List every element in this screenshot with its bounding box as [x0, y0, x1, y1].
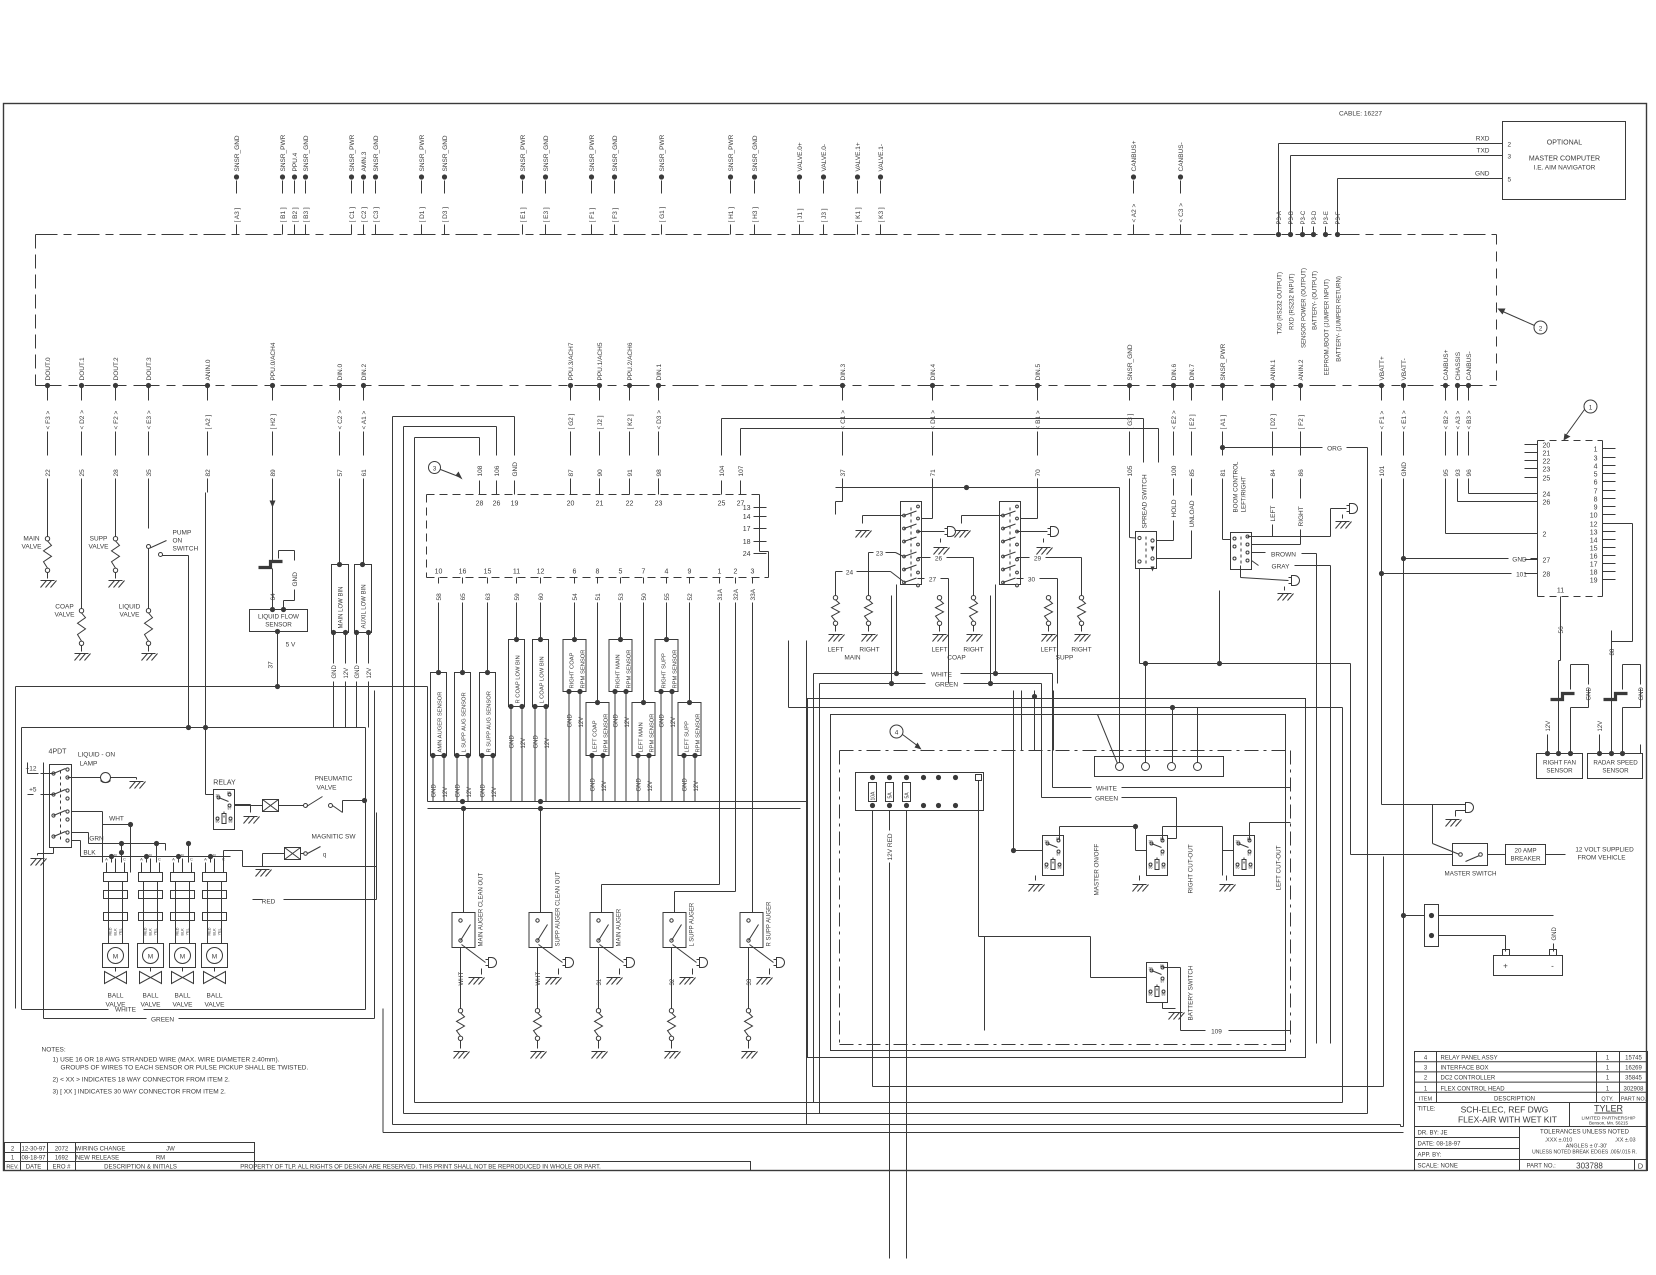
- svg-text:30: 30: [1028, 577, 1036, 584]
- svg-text:DIN.6: DIN.6: [1171, 364, 1178, 381]
- svg-text:LEFT: LEFT: [1041, 647, 1057, 654]
- wire 96 to pin24: [1469, 493, 1538, 494]
- svg-text:1) USE 16 OR 18 AWG STRANDED W: 1) USE 16 OR 18 AWG STRANDED WIRE (MAX. …: [53, 1057, 280, 1064]
- svg-text:4: 4: [895, 730, 899, 737]
- svg-text:M: M: [212, 954, 217, 961]
- svg-text:VALVE: VALVE: [317, 785, 338, 792]
- wire GND: [1338, 171, 1503, 227]
- svg-text:87: 87: [228, 807, 232, 811]
- svg-text:LIQUID - ON: LIQUID - ON: [78, 752, 116, 759]
- harness stub B1 / DIN.5 wire 70: [1035, 364, 1042, 493]
- battery BT1: [1494, 950, 1563, 976]
- svg-text:RPM SENSOR: RPM SENSOR: [604, 714, 610, 753]
- svg-text:[ D1 ]: [ D1 ]: [419, 207, 426, 223]
- svg-text:YEL: YEL: [186, 928, 190, 935]
- svg-text:90: 90: [597, 469, 604, 477]
- wire 71 to module: [932, 493, 934, 519]
- wire 104 route: [722, 419, 1144, 463]
- bus wire: lower harness dash line: [36, 385, 1497, 387]
- svg-text:JW: JW: [166, 1147, 175, 1153]
- bell B1: [918, 527, 956, 555]
- svg-text:5 V: 5 V: [286, 642, 296, 649]
- svg-text:DOUT.3: DOUT.3: [146, 357, 153, 381]
- svg-text:MAIN AUGER CLEAN OUT: MAIN AUGER CLEAN OUT: [479, 872, 485, 946]
- pin 4 wire 55: [664, 569, 671, 613]
- svg-text:SUPP: SUPP: [90, 536, 108, 543]
- svg-text:30: 30: [1149, 840, 1153, 844]
- svg-text:MAIN: MAIN: [23, 536, 40, 543]
- pin 22: [626, 481, 634, 508]
- wire white run: [428, 801, 807, 803]
- node P3-E: [1323, 211, 1331, 375]
- harness stub H2 / PPU.0/ACH4 wire 89: [270, 342, 277, 492]
- wire 31A: [602, 613, 720, 913]
- coap valve V2: [55, 604, 91, 661]
- svg-text:VBATT-: VBATT-: [1401, 358, 1408, 380]
- harness stub C2 / DIN.0 wire 57: [337, 364, 344, 493]
- svg-text:5: 5: [619, 569, 623, 576]
- wire E3 down: [148, 493, 150, 529]
- svg-text:FROM VEHICLE: FROM VEHICLE: [1578, 855, 1626, 862]
- svg-text:GND: GND: [481, 784, 487, 798]
- amn auger sensor: [430, 613, 449, 802]
- svg-text:DOUT.1: DOUT.1: [79, 357, 86, 381]
- node P3-D: [1311, 210, 1319, 330]
- 20 amp breaker CB1: [1488, 845, 1566, 865]
- svg-text:87: 87: [568, 469, 575, 477]
- harness stub B3 / CANBUS- wire 96: [1466, 351, 1473, 492]
- label LEFT: [1252, 493, 1278, 537]
- harness stub K2 / PPU.2/ACH6 wire 91: [627, 342, 634, 492]
- svg-text:TOLERANCES UNLESS NOTED: TOLERANCES UNLESS NOTED: [1540, 1130, 1630, 1136]
- pump on switch S1: [147, 530, 199, 728]
- svg-text:MAGNITIC SW: MAGNITIC SW: [311, 834, 356, 841]
- svg-text:GND: GND: [332, 665, 338, 679]
- svg-text:CANBUS+: CANBUS+: [1131, 140, 1138, 171]
- svg-text:88: 88: [1162, 866, 1166, 870]
- pulse pickup PU2: [1551, 665, 1593, 754]
- svg-text:< C1 >: < C1 >: [840, 410, 847, 430]
- svg-text:DOUT.0: DOUT.0: [45, 357, 52, 381]
- label CABLE: 16227: [1339, 111, 1382, 118]
- wire loop from pin 19: [393, 417, 515, 441]
- svg-text:PPU.0/ACH4: PPU.0/ACH4: [270, 342, 277, 380]
- svg-text:BLK: BLK: [114, 928, 118, 936]
- svg-text:[ H2 ]: [ H2 ]: [270, 414, 277, 430]
- svg-text:15: 15: [484, 569, 492, 576]
- svg-text:L COAP LOW BIN: L COAP LOW BIN: [540, 656, 546, 703]
- svg-text:< E2 >: < E2 >: [1171, 410, 1178, 429]
- svg-text:23: 23: [655, 501, 663, 508]
- svg-text:109: 109: [1211, 1029, 1222, 1036]
- svg-text:BALL: BALL: [108, 993, 124, 1000]
- svg-text:7: 7: [1594, 489, 1598, 496]
- svg-text:14: 14: [1590, 538, 1598, 545]
- callout 1: [1564, 400, 1598, 441]
- svg-text:BLK: BLK: [83, 850, 96, 857]
- pin 21: [1525, 451, 1551, 458]
- pin 8: [1594, 497, 1616, 504]
- svg-text:LEFT MAIN: LEFT MAIN: [639, 722, 645, 752]
- node P3-C: [1300, 210, 1308, 348]
- svg-text:MAIN: MAIN: [844, 655, 861, 662]
- mid loop verticals: [789, 641, 1343, 1125]
- svg-text:88: 88: [1162, 993, 1166, 997]
- svg-text:TITLE:: TITLE:: [1418, 1107, 1436, 1113]
- svg-text:VALVE: VALVE: [141, 1002, 162, 1009]
- notes: [42, 1047, 309, 1096]
- pin 1 wire 31A: [717, 569, 724, 613]
- wire 32A: [675, 613, 736, 913]
- harness stub D1 / DIN.4 wire 71: [930, 364, 937, 493]
- svg-text:SNSR_PWR: SNSR_PWR: [280, 134, 287, 171]
- svg-text:VALVE: VALVE: [120, 612, 141, 619]
- wire from fuse block: [979, 781, 985, 1031]
- pin 27 wire 107: [737, 441, 745, 508]
- svg-text:16269: 16269: [1625, 1066, 1642, 1072]
- svg-text:25: 25: [79, 469, 86, 477]
- svg-text:SCALE: NONE: SCALE: NONE: [1418, 1164, 1458, 1170]
- svg-text:GND: GND: [1475, 171, 1490, 178]
- svg-text:SNSR_GND: SNSR_GND: [752, 135, 759, 171]
- r coap low bin sensor: [508, 613, 527, 802]
- wire 64: [270, 569, 277, 610]
- svg-text:LEFT COAP: LEFT COAP: [593, 720, 599, 752]
- svg-text:57: 57: [337, 469, 344, 477]
- svg-text:2: 2: [734, 569, 738, 576]
- svg-text:ANIN.1: ANIN.1: [1270, 359, 1277, 380]
- svg-text:30: 30: [1149, 967, 1153, 971]
- svg-text:53: 53: [618, 593, 625, 601]
- connector stub C3 (CANBUS-): [1178, 142, 1185, 234]
- svg-text:GND: GND: [1552, 927, 1558, 941]
- svg-text:DESCRIPTION & INITIALS: DESCRIPTION & INITIALS: [104, 1165, 177, 1171]
- wire: [658, 441, 660, 456]
- radar speed sensor: [1588, 745, 1643, 779]
- svg-text:16: 16: [1590, 554, 1598, 561]
- svg-text:61: 61: [361, 469, 368, 477]
- svg-text:101: 101: [1516, 572, 1527, 579]
- svg-text:BLK: BLK: [149, 928, 153, 936]
- svg-text:86: 86: [1045, 866, 1049, 870]
- pin 26 wire 106: [493, 441, 501, 508]
- main low bin sensor: [331, 493, 350, 728]
- wire green run: [428, 808, 801, 810]
- pin 15: [1590, 546, 1616, 553]
- coil resistor: [829, 596, 845, 642]
- svg-text:SNSR_GND: SNSR_GND: [612, 135, 619, 171]
- svg-text:SUPP AUGER CLEAN OUT: SUPP AUGER CLEAN OUT: [556, 871, 562, 946]
- svg-text:DIN.0: DIN.0: [337, 364, 344, 381]
- svg-text:BATTERY- (OUTPUT): BATTERY- (OUTPUT): [1313, 271, 1319, 330]
- svg-text:APP. BY:: APP. BY:: [1418, 1153, 1442, 1159]
- svg-text:NEW RELEASE: NEW RELEASE: [76, 1156, 119, 1162]
- svg-text:SNSR_GND: SNSR_GND: [442, 135, 449, 171]
- svg-text:DIN.3: DIN.3: [840, 364, 847, 381]
- svg-text:6: 6: [573, 569, 577, 576]
- svg-text:105: 105: [1127, 465, 1134, 476]
- bell B3: [1248, 504, 1358, 537]
- svg-text:[ D3 ]: [ D3 ]: [442, 207, 449, 223]
- svg-text:13: 13: [1590, 530, 1598, 537]
- property note: [240, 1162, 750, 1171]
- svg-text:SPREAD SWITCH: SPREAD SWITCH: [1142, 474, 1149, 528]
- right fan sensor: [1537, 745, 1583, 779]
- svg-text:RIGHT: RIGHT: [963, 647, 983, 654]
- connector stub D3 (SNSR_GND): [442, 135, 449, 234]
- inner enclosure line: [44, 691, 375, 1019]
- svg-text:YEL: YEL: [119, 928, 123, 935]
- wire 93 to pin26: [1458, 493, 1538, 502]
- svg-text:BATTERY SWITCH: BATTERY SWITCH: [1188, 965, 1195, 1020]
- svg-text:88: 88: [1058, 866, 1062, 870]
- svg-text:SNSR_PWR: SNSR_PWR: [589, 134, 596, 171]
- svg-text:[ J2 ]: [ J2 ]: [597, 415, 604, 429]
- svg-text:23: 23: [1543, 467, 1551, 474]
- main auger clean out switch: [452, 806, 497, 1059]
- svg-text:VALVE: VALVE: [173, 1002, 194, 1009]
- node P3-B: [1288, 211, 1296, 330]
- brown wire: [1252, 552, 1317, 1044]
- svg-text:8: 8: [1594, 497, 1598, 504]
- svg-text:LIQUID FLOW: LIQUID FLOW: [258, 614, 299, 621]
- svg-text:33A: 33A: [750, 588, 757, 600]
- svg-text:COAP: COAP: [947, 655, 965, 662]
- svg-text:VALVE: VALVE: [89, 544, 110, 551]
- svg-text:30: 30: [1236, 840, 1240, 844]
- harness stub G2 / PPU.3/ACH7 wire 87: [568, 342, 575, 492]
- pin 17: [1590, 562, 1616, 569]
- pin 20: [1525, 443, 1551, 450]
- svg-text:[ A3 ]: [ A3 ]: [234, 207, 241, 222]
- wire 37 run left: [16, 687, 278, 1009]
- wire spread down: [1139, 569, 1141, 664]
- svg-text:[ D2 ]: [ D2 ]: [1270, 414, 1277, 430]
- svg-text:VBATT+: VBATT+: [1379, 356, 1386, 380]
- svg-text:302908: 302908: [1623, 1087, 1644, 1093]
- svg-text:31: 31: [597, 978, 603, 985]
- svg-text:24: 24: [846, 570, 854, 577]
- svg-text:A: A: [204, 857, 207, 862]
- svg-text:< B1 >: < B1 >: [1035, 410, 1042, 429]
- svg-text:q: q: [323, 853, 326, 859]
- svg-text:51: 51: [595, 593, 602, 601]
- svg-text:LAMP: LAMP: [80, 761, 98, 768]
- wire 101 to pin28: [1379, 571, 1538, 579]
- svg-text:11: 11: [513, 569, 520, 576]
- pin 26: [1525, 500, 1551, 507]
- hold label: [1157, 493, 1179, 541]
- svg-text:PPU.2/ACH6: PPU.2/ACH6: [627, 342, 634, 380]
- svg-text:GREEN: GREEN: [935, 682, 958, 689]
- connector stub K3 (VALVE.1-): [878, 144, 885, 235]
- svg-text:< C2 >: < C2 >: [337, 410, 344, 430]
- connector stub B3 (SNSR_GND): [303, 135, 310, 234]
- white green wires: [814, 585, 1053, 689]
- svg-text:3) [ XX ] INDICATES 30 WAY CON: 3) [ XX ] INDICATES 30 WAY CONNECTOR FRO…: [53, 1089, 227, 1096]
- master switch S6: [1445, 844, 1497, 878]
- svg-text:ON: ON: [173, 538, 183, 545]
- connector stub J3 (VALVE.0-): [821, 144, 828, 235]
- svg-text:CABLE: 16227: CABLE: 16227: [1339, 111, 1382, 118]
- svg-text:22: 22: [1543, 459, 1551, 466]
- svg-text:VALVE: VALVE: [205, 1002, 226, 1009]
- svg-text:22: 22: [45, 469, 52, 477]
- svg-text:98: 98: [656, 469, 663, 477]
- node P3-F: [1335, 211, 1343, 362]
- harness stub G3 / SNSR_GND wire 105: [1127, 344, 1134, 492]
- svg-text:27: 27: [929, 577, 937, 584]
- auxil low bin sensor: [354, 493, 373, 728]
- svg-text:86: 86: [216, 820, 220, 824]
- svg-text:BREAKER: BREAKER: [1510, 856, 1541, 863]
- interface box U3 (item 3): [427, 495, 769, 578]
- harness stub E1 / VBATT- wire GND: [1401, 358, 1408, 492]
- pin 28: [1525, 572, 1551, 579]
- svg-text:WHITE: WHITE: [115, 1007, 137, 1014]
- svg-text:DIN.1: DIN.1: [656, 364, 663, 381]
- svg-text:5: 5: [1594, 472, 1598, 479]
- svg-text:RPM SENSOR: RPM SENSOR: [696, 714, 702, 753]
- svg-text:2072: 2072: [55, 1147, 69, 1153]
- harness stub B2 / CANBUS+ wire 95: [1443, 349, 1450, 492]
- right cut-out relay K2: [1133, 827, 1223, 894]
- pin 19: [1590, 578, 1616, 585]
- svg-text:[ G3 ]: [ G3 ]: [1127, 413, 1134, 429]
- connector stub F1 (SNSR_PWR): [589, 134, 596, 234]
- labels left/right coap: [932, 647, 984, 662]
- svg-text:PUMP: PUMP: [173, 530, 192, 537]
- wire: [278, 687, 428, 802]
- svg-text:WHT: WHT: [109, 816, 124, 823]
- svg-text:DESCRIPTION: DESCRIPTION: [1494, 1097, 1535, 1103]
- svg-text:SNSR_GND: SNSR_GND: [1127, 344, 1134, 380]
- pin 21: [596, 481, 604, 508]
- svg-text:< D2 >: < D2 >: [79, 410, 86, 430]
- svg-text:RPM SENSOR: RPM SENSOR: [581, 650, 587, 689]
- svg-text:[ B2 ]: [ B2 ]: [292, 207, 299, 222]
- svg-text:DR. BY: JE: DR. BY: JE: [1418, 1131, 1448, 1137]
- svg-text:BALL: BALL: [207, 993, 223, 1000]
- bell B4: [1241, 566, 1300, 601]
- svg-text:RED: RED: [144, 927, 148, 935]
- svg-text:5: 5: [1508, 177, 1512, 184]
- svg-text:GND: GND: [512, 462, 519, 477]
- svg-text:12V RED: 12V RED: [887, 833, 894, 860]
- svg-text:GND: GND: [432, 784, 438, 798]
- svg-text:PPU.4: PPU.4: [292, 152, 299, 171]
- pin 19 wire GND: [511, 441, 519, 508]
- connector stub C1 (SNSR_PWR): [349, 134, 356, 234]
- battery switch relay K4: [979, 937, 1195, 1031]
- svg-text:26: 26: [935, 556, 943, 563]
- svg-text:SNSR_GND: SNSR_GND: [234, 135, 241, 171]
- svg-text:MASTER SWITCH: MASTER SWITCH: [1445, 871, 1497, 878]
- svg-text:SENSOR: SENSOR: [1546, 768, 1573, 775]
- svg-text:OPTIONAL: OPTIONAL: [1547, 140, 1583, 147]
- svg-text:SNSR_GND: SNSR_GND: [543, 135, 550, 171]
- callout 3: [429, 462, 463, 480]
- svg-text:PART NO.: PART NO.: [1621, 1097, 1647, 1103]
- svg-text:12V: 12V: [1598, 721, 1604, 732]
- label RIGHT: [1252, 493, 1306, 545]
- wire 88: [1610, 631, 1616, 661]
- relay K5: [203, 493, 260, 830]
- svg-text:[ A1 ]: [ A1 ]: [1220, 414, 1227, 429]
- svg-text:[ G1 ]: [ G1 ]: [659, 206, 666, 222]
- svg-text:87: 87: [1161, 853, 1165, 857]
- pin 12: [1590, 522, 1616, 529]
- connector stub B1 (SNSR_PWR): [280, 134, 287, 234]
- svg-text:[ E2 ]: [ E2 ]: [1189, 414, 1196, 429]
- svg-text:28: 28: [476, 501, 484, 508]
- loop wire pin26 bottom: [404, 427, 1368, 1114]
- svg-text:86: 86: [1149, 993, 1153, 997]
- pin 23: [1525, 467, 1551, 474]
- label 29: [1017, 556, 1082, 596]
- svg-text:25: 25: [718, 501, 726, 508]
- svg-text:GREEN: GREEN: [151, 1017, 174, 1024]
- pin 25: [1525, 476, 1551, 483]
- ball valve BV3: [170, 853, 196, 1009]
- pin 11 wire 59: [513, 569, 521, 613]
- svg-text:[ G2 ]: [ G2 ]: [568, 413, 575, 429]
- svg-text:20: 20: [1543, 443, 1551, 450]
- svg-text:TXD: TXD: [1477, 148, 1490, 155]
- svg-text:SNSR_PWR: SNSR_PWR: [659, 134, 666, 171]
- svg-text:TXD (RS232 OUTPUT): TXD (RS232 OUTPUT): [1278, 272, 1284, 334]
- svg-text:WHITE: WHITE: [931, 672, 953, 679]
- label 12 volt supplied: [1575, 847, 1634, 862]
- svg-text:DIN.2: DIN.2: [361, 364, 368, 381]
- svg-text:P3-C: P3-C: [1301, 210, 1307, 224]
- bus wire: top harness dash-dot line: [36, 235, 1497, 386]
- svg-text:SNSR_PWR: SNSR_PWR: [1220, 343, 1227, 380]
- svg-text:GND: GND: [292, 572, 299, 587]
- svg-text:M: M: [113, 954, 118, 961]
- svg-text:19: 19: [511, 501, 519, 508]
- svg-text:AMN.3: AMN.3: [361, 151, 368, 171]
- svg-text:ITEM: ITEM: [1419, 1097, 1433, 1103]
- r supp auger switch: [740, 901, 785, 1059]
- svg-text:RPM SENSOR: RPM SENSOR: [673, 650, 679, 689]
- org wire: [1220, 445, 1368, 1114]
- pin 5: [1594, 472, 1616, 479]
- svg-text:ERO #: ERO #: [52, 1165, 71, 1171]
- wire: harness dashed right edge: [1496, 235, 1498, 386]
- svg-text:I.E. AIM NAVIGATOR: I.E. AIM NAVIGATOR: [1534, 165, 1596, 172]
- fuse wires down: [873, 811, 1384, 1259]
- svg-text:10: 10: [435, 569, 443, 576]
- svg-text:TYLER: TYLER: [1594, 1104, 1624, 1114]
- svg-text:EEPROM./BOOT (JUMPER INPUT): EEPROM./BOOT (JUMPER INPUT): [1325, 279, 1331, 375]
- labels left/right supp: [1041, 647, 1092, 662]
- connector stub C2 (AMN.3): [361, 151, 368, 234]
- wire 105: [1130, 493, 1136, 539]
- pin 25 wire 104: [718, 441, 726, 508]
- svg-text:LIQUID: LIQUID: [119, 604, 141, 611]
- svg-text:DC2 CONTROLLER: DC2 CONTROLLER: [1441, 1076, 1496, 1082]
- svg-text:P3-D: P3-D: [1312, 210, 1318, 224]
- label 12V: [1546, 721, 1552, 745]
- svg-text:P3-E: P3-E: [1324, 211, 1330, 224]
- svg-text:35: 35: [146, 469, 153, 477]
- pin 17: [743, 526, 767, 533]
- svg-text:13: 13: [743, 505, 751, 512]
- svg-text:FLEX-AIR WITH WET KIT: FLEX-AIR WITH WET KIT: [1458, 1115, 1557, 1125]
- svg-text:GND: GND: [683, 778, 689, 792]
- relay panel assy box (item 4, dashed): [808, 699, 1306, 1058]
